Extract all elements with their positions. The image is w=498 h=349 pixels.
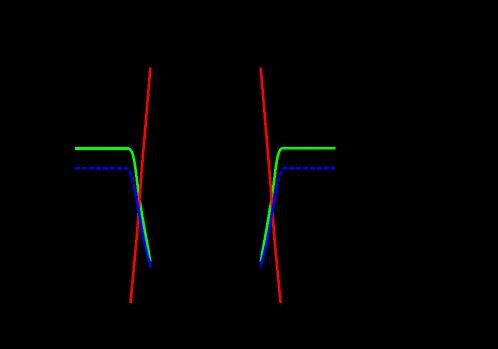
blue dashed flat segment right panel [278,168,336,184]
blue dashed flat segment left panel [75,168,134,184]
red curve left panel [131,68,151,303]
blue curve descending segment right panel [260,184,277,268]
red curve right panel [261,68,281,303]
green curve right panel [261,148,336,262]
left panel [75,68,151,303]
right panel (mirror of left about x=205.55) [260,68,335,303]
green curve left panel [75,149,150,262]
blue curve descending segment left panel [134,184,151,268]
